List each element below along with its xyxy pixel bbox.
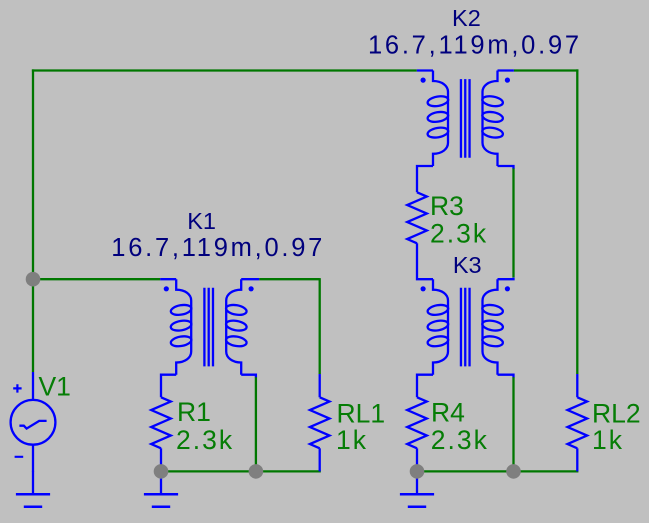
K3 primary bottom jog to R4 xyxy=(417,375,433,398)
wire node feed to K1 primary xyxy=(33,278,160,280)
junction node K1 secondary bottom xyxy=(249,464,264,479)
svg-text:K3: K3 xyxy=(453,252,482,278)
junction node K3 secondary bottom xyxy=(506,464,521,479)
inductor winding K1 primary L1 xyxy=(176,279,191,375)
resistor body RL2 xyxy=(568,397,588,448)
K3 secondary top jog xyxy=(498,278,514,280)
resistor body R4 xyxy=(407,397,427,448)
svg-text:16.7,119m,0.97: 16.7,119m,0.97 xyxy=(368,31,582,59)
transformer core K1 xyxy=(204,288,213,367)
voltage source V1 minus sign xyxy=(15,456,24,458)
junction node at left rail / K1 feed xyxy=(26,272,41,287)
svg-text:R1: R1 xyxy=(177,397,211,427)
wire top-left vertical (left rail) xyxy=(32,69,34,279)
inductor winding K2 primary L3 xyxy=(433,71,448,167)
svg-text:R3: R3 xyxy=(430,191,464,221)
svg-text:16.7,119m,0.97: 16.7,119m,0.97 xyxy=(111,234,325,262)
resistor RL1 bottom lead xyxy=(319,448,321,471)
svg-text:1k: 1k xyxy=(592,425,624,455)
voltage source V1 plus sign xyxy=(13,384,21,392)
svg-text:K1: K1 xyxy=(187,208,216,234)
svg-text:1k: 1k xyxy=(336,425,368,455)
svg-text:R4: R4 xyxy=(431,398,465,428)
ground V1 xyxy=(16,471,50,507)
wire K3 secondary bottom vertical xyxy=(512,377,514,471)
K2 primary bottom jog to R3 xyxy=(417,166,433,192)
voltage source V1 top lead xyxy=(32,372,34,400)
svg-text:2.3k: 2.3k xyxy=(431,425,489,455)
resistor RL2 bottom lead xyxy=(576,448,578,471)
svg-text:V1: V1 xyxy=(39,372,71,402)
resistor R3 bottom lead to K3 xyxy=(417,243,433,279)
resistor R4 bottom lead xyxy=(416,448,418,471)
resistor R1 bottom lead xyxy=(160,448,162,471)
wire K1 secondary to RL1 xyxy=(259,278,320,280)
K3 secondary bottom jog xyxy=(498,375,514,378)
svg-text:RL2: RL2 xyxy=(592,398,641,428)
wire K1 secondary bottom vertical xyxy=(255,377,257,471)
K2 primary top lead xyxy=(417,69,433,71)
ground R1 xyxy=(144,471,178,506)
resistor RL2 top lead xyxy=(576,374,578,397)
K1 secondary top lead xyxy=(241,278,259,280)
transformer core K3 xyxy=(461,288,470,367)
inductor winding K2 secondary L4 xyxy=(483,71,498,167)
wire left rail junction to V1 xyxy=(32,279,34,372)
inductor winding K3 secondary L6 xyxy=(483,279,498,375)
K1 primary top lead xyxy=(160,278,176,280)
inductor winding K3 primary L5 xyxy=(433,279,448,375)
transformer core K2 xyxy=(461,79,470,158)
K2 secondary bottom jog xyxy=(498,166,514,169)
resistor body RL1 xyxy=(310,397,330,448)
wire bottom rail left (R1 to RL1) xyxy=(161,470,321,472)
K1 primary bottom jog to R1 xyxy=(161,375,176,398)
K1 secondary bottom jog xyxy=(241,375,256,378)
resistor RL1 top lead xyxy=(319,374,321,397)
voltage source V1 bottom lead xyxy=(32,445,34,472)
voltage source V1 circle xyxy=(11,400,56,445)
voltage source V1 sine squiggle xyxy=(19,421,46,429)
inductor winding K1 secondary L2 xyxy=(226,279,241,375)
wire right rail vertical to RL2 xyxy=(576,69,578,374)
wire top horizontal to K2 primary xyxy=(32,69,417,71)
wire RL1 top vertical xyxy=(319,278,321,374)
svg-text:RL1: RL1 xyxy=(337,398,386,428)
wire K2 secondary to right rail corner xyxy=(514,69,579,71)
resistor body R3 xyxy=(407,192,427,243)
wire bottom rail right (R4 to RL2) xyxy=(417,470,578,472)
junction node R4 bottom xyxy=(410,464,425,479)
svg-text:2.3k: 2.3k xyxy=(430,218,488,248)
resistor body R1 xyxy=(151,397,171,448)
junction node R1 bottom xyxy=(154,464,169,479)
svg-text:2.3k: 2.3k xyxy=(176,425,234,455)
svg-text:K2: K2 xyxy=(452,5,481,31)
wire K2 secondary bottom to K3 secondary top xyxy=(512,168,514,277)
ground R4 xyxy=(400,471,434,506)
K2 secondary top lead xyxy=(498,69,514,71)
